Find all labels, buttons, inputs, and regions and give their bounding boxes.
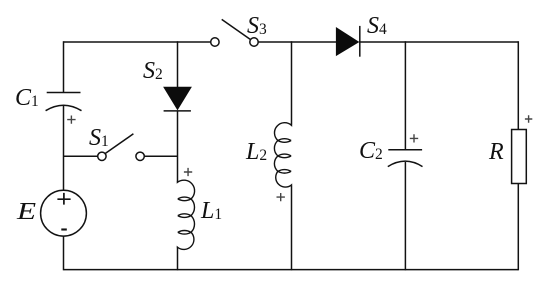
wire S2 branch top: [177, 41, 179, 87]
label R: [489, 140, 504, 164]
wire L2 to bottom rail: [291, 186, 293, 271]
wire bottom rail: [64, 269, 519, 271]
label S3: [247, 14, 267, 38]
wire left branch upper (corner to C1): [63, 41, 65, 92]
inductor L2: [274, 123, 291, 187]
wire S2 to L1: [177, 111, 179, 181]
wire top rail mid segment: [258, 41, 336, 43]
voltage source E: [41, 190, 87, 236]
label C1: [15, 86, 39, 110]
label S4: [367, 14, 387, 38]
wire top rail right segment: [359, 41, 518, 43]
diode S2: [164, 87, 191, 111]
label L1: [201, 199, 222, 223]
wire L1 to bottom rail: [177, 248, 179, 270]
switch S3: [211, 19, 259, 46]
resistor R: [512, 41, 527, 270]
diode S4: [336, 26, 359, 57]
wire left branch lower (E to bottom rail): [63, 236, 65, 270]
label S1: [89, 126, 109, 150]
wire left branch mid (C1 to E): [63, 106, 65, 190]
polarity plus of C2: [410, 134, 418, 142]
polarity plus of L2: [277, 193, 285, 201]
label L2: [246, 140, 267, 164]
label C2: [359, 139, 383, 163]
switch S1: [64, 134, 178, 161]
polarity plus of L1: [184, 168, 192, 176]
capacitor C2: [388, 41, 423, 270]
inductor L1: [177, 180, 194, 249]
label S2: [143, 59, 163, 83]
capacitor C1: [46, 93, 82, 111]
polarity plus of C1: [67, 116, 75, 124]
polarity plus of R: [525, 115, 532, 122]
wire L2 branch top: [291, 41, 293, 124]
wire top rail left segment: [64, 41, 211, 43]
label E: [17, 200, 36, 224]
